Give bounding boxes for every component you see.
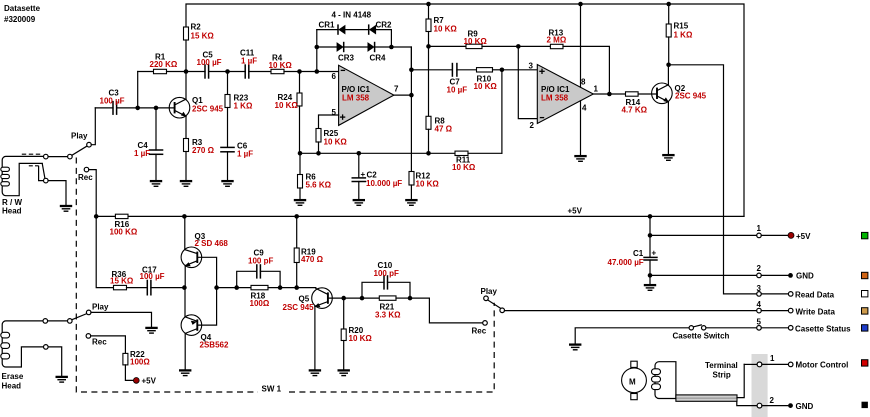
wire drive line (217, 287, 251, 289)
svg-text:+: + (361, 170, 366, 179)
node rail/Q3 (182, 214, 187, 219)
svg-text:R2: R2 (191, 23, 202, 32)
svg-text:Play: Play (71, 132, 88, 141)
resistor R3 (184, 139, 189, 152)
wire IC1b output (593, 93, 625, 95)
capacitor C4 (155, 108, 157, 150)
svg-text:GND: GND (796, 272, 814, 281)
wire cassette to pin5 (706, 327, 757, 329)
switch cassette arm (694, 325, 702, 327)
svg-text:#320009: #320009 (4, 15, 36, 24)
wire pin3 tail (761, 293, 788, 295)
erase head (2, 321, 43, 367)
resistor R23 (227, 72, 229, 95)
switch cassette left contact (689, 326, 693, 330)
svg-text:LM 358: LM 358 (342, 94, 370, 103)
svg-text:2SC 945: 2SC 945 (675, 92, 707, 101)
svg-text:+5V: +5V (796, 232, 811, 241)
ground R20 (338, 370, 350, 375)
resistor R16 (115, 214, 128, 218)
terminal motor GND (788, 403, 793, 408)
capacitor C1 (649, 216, 651, 257)
wire output vertical (410, 47, 412, 172)
wire diode left vertical (316, 30, 318, 72)
terminal Write Data (788, 308, 793, 313)
svg-text:1 µF: 1 µF (237, 150, 253, 159)
node C1 top / pin1 (648, 233, 653, 238)
terminal strip band (752, 354, 768, 417)
svg-text:1: 1 (770, 354, 775, 363)
wire erase contact to pole (48, 320, 68, 322)
wire rail node down to R36 (96, 216, 113, 287)
svg-text:Rec: Rec (472, 327, 487, 336)
resistor R7 (428, 4, 430, 19)
resistor R19 (296, 216, 298, 248)
node diode left lower (315, 45, 320, 50)
wire head rec to ground (48, 181, 66, 206)
svg-text:SW 1: SW 1 (262, 385, 282, 394)
resistor R6 (299, 153, 301, 174)
wire read data run (669, 65, 757, 294)
LED square orange (862, 272, 868, 278)
svg-text:Erase: Erase (2, 372, 24, 381)
wire motor control tail (762, 363, 788, 365)
terminal +5V R22 (133, 378, 139, 384)
svg-text:8: 8 (581, 77, 586, 86)
node R25/rail (316, 151, 321, 156)
node IC1a output (409, 93, 414, 98)
wire C3 node to C4 node (138, 107, 156, 109)
svg-text:5: 5 (332, 108, 337, 117)
wire Q2 emitter (667, 102, 669, 155)
transistor Q5 (312, 288, 333, 309)
node R20 top (341, 296, 346, 301)
terminal Read Data (788, 292, 793, 297)
resistor R24 (299, 72, 301, 94)
svg-text:10 KΩ: 10 KΩ (349, 334, 373, 343)
wire to pin6 (300, 71, 339, 73)
wire pin1 +5V (650, 234, 757, 236)
wire IC1a output (394, 94, 412, 96)
pin 3 contact (757, 292, 762, 297)
switch contact head rec (44, 178, 49, 183)
resistor R13 (518, 45, 550, 47)
capacitor C6 (220, 146, 235, 148)
ground R12 (405, 200, 417, 205)
svg-text:15 KΩ: 15 KΩ (110, 277, 134, 286)
wire contact to pole (48, 156, 68, 158)
node R4/R24 (297, 69, 302, 74)
resistor R1 (138, 71, 154, 73)
switch arm lower right (488, 300, 501, 308)
svg-text:7: 7 (394, 84, 399, 93)
svg-text:Strip: Strip (713, 371, 731, 380)
svg-text:Play: Play (481, 287, 498, 296)
switch contact Play lower (86, 310, 91, 315)
resistor R2 (184, 27, 189, 40)
svg-text:2 MΩ: 2 MΩ (547, 36, 567, 45)
node rail/R36 (94, 214, 99, 219)
capacitor C5 (186, 71, 205, 73)
switch pole lower play (68, 319, 73, 324)
LED square white (862, 291, 868, 297)
wire pin4 tail (761, 310, 788, 312)
ground IC1b pin4 (574, 156, 586, 161)
wire motor gnd tail (762, 405, 788, 407)
op-amp IC1b (537, 65, 593, 124)
svg-text:2: 2 (530, 121, 535, 130)
svg-text:+5V: +5V (568, 207, 583, 216)
diode CR4 (368, 42, 375, 52)
label SW1 (258, 384, 288, 393)
node base line / drive (214, 285, 219, 290)
LED square green (862, 232, 868, 238)
node pin6 / diode (315, 69, 320, 74)
capacitor C3 (95, 107, 113, 109)
svg-text:1: 1 (757, 224, 762, 233)
node C7/R10/pin3 (500, 68, 505, 73)
svg-text:4 - IN 4148: 4 - IN 4148 (332, 11, 372, 20)
ground head rec (60, 206, 72, 211)
wire R1 to C3 node (137, 72, 139, 108)
svg-text:Datasette: Datasette (4, 4, 41, 13)
wire to Rec lower right (410, 298, 483, 323)
svg-text:470 Ω: 470 Ω (301, 255, 324, 264)
svg-text:47.000 µF: 47.000 µF (608, 258, 644, 267)
switch contact Play upper (87, 142, 92, 147)
svg-text:M: M (629, 378, 636, 387)
switch arm upper play (72, 146, 87, 155)
wire rec lower to R22 (91, 336, 126, 354)
ground C6 (221, 181, 233, 186)
terminal Motor Control (788, 362, 793, 367)
wire play contact to C3 (91, 108, 95, 145)
transistor Q1 (169, 97, 190, 118)
switch arm head rec (42, 164, 45, 178)
svg-text:4: 4 (757, 300, 762, 309)
svg-text:100 pF: 100 pF (374, 269, 399, 278)
capacitor C17 (146, 280, 148, 296)
resistor R15 (668, 4, 670, 24)
resistor R20 (343, 298, 345, 329)
node R9/R13/pin2 (516, 44, 521, 49)
node C10 left (360, 296, 365, 301)
svg-text:1 KΩ: 1 KΩ (674, 31, 693, 40)
svg-text:2: 2 (770, 396, 775, 405)
node R8/R11 (426, 151, 431, 156)
svg-text:100Ω: 100Ω (130, 358, 150, 367)
motor terminal bottom (631, 394, 637, 400)
transistor Q2 (652, 83, 673, 104)
svg-text:Read Data: Read Data (795, 291, 835, 300)
node top rail / pin8 (578, 2, 583, 7)
resistor R4 (271, 69, 284, 73)
wire pin2 GND (650, 274, 757, 276)
R/W head (2, 156, 45, 195)
svg-text:R15: R15 (674, 22, 689, 31)
capacitor C10 (362, 282, 384, 298)
svg-text:1: 1 (594, 85, 599, 94)
svg-text:10 KΩ: 10 KΩ (464, 37, 488, 46)
wire lower rail (300, 152, 455, 154)
svg-text:10 KΩ: 10 KΩ (434, 25, 458, 34)
mech link dashes upper (22, 153, 41, 155)
switch contact Rec lower right (483, 321, 488, 326)
svg-text:3: 3 (757, 284, 762, 293)
svg-text:270 Ω: 270 Ω (192, 146, 215, 155)
node C1 bottom / pin2 (648, 273, 653, 278)
ground Q5 (309, 370, 321, 375)
pin 4 contact (757, 308, 762, 313)
motor terminal top (631, 361, 637, 367)
wire ribbon to pin1 (737, 364, 744, 397)
svg-text:100 µF: 100 µF (140, 272, 165, 281)
pin 5 contact (757, 326, 762, 331)
svg-text:10 µF: 10 µF (447, 86, 468, 95)
svg-text:100 KΩ: 100 KΩ (110, 228, 138, 237)
wire pin5 to R25 (319, 115, 339, 129)
node rail/C1 (648, 214, 653, 219)
wire Rec to rail node (89, 170, 96, 217)
resistor R8 (428, 46, 430, 116)
svg-text:4.7 KΩ: 4.7 KΩ (622, 106, 648, 115)
node C4 tap (154, 106, 159, 111)
svg-text:1 KΩ: 1 KΩ (234, 102, 253, 111)
ground R6 (294, 200, 306, 205)
node C7 tap (409, 68, 414, 73)
resistor R25 (316, 129, 321, 143)
svg-text:Play: Play (92, 303, 109, 312)
svg-text:15 KΩ: 15 KΩ (191, 32, 215, 41)
svg-text:10 KΩ: 10 KΩ (416, 180, 440, 189)
svg-text:Write Data: Write Data (796, 308, 836, 317)
LED square red (862, 360, 868, 366)
svg-text:10 KΩ: 10 KΩ (269, 61, 293, 70)
capacitor C9 (237, 271, 257, 287)
node IC1b output (607, 92, 612, 97)
svg-text:6: 6 (332, 72, 337, 81)
ground Q4 (179, 370, 191, 375)
switch pole upper play (68, 154, 73, 159)
switch arm lower play (72, 314, 87, 320)
ground R3 (180, 181, 192, 186)
resistor R22 (123, 353, 128, 365)
node Q3 emitter / Q4 emitter (182, 285, 187, 290)
ground play lower (145, 328, 157, 333)
ground C2 (353, 200, 365, 205)
terminal +5V (788, 232, 794, 238)
wire Q5 base line (328, 297, 362, 299)
node diode right lower (389, 45, 394, 50)
svg-text:1 µF: 1 µF (134, 149, 150, 158)
svg-text:10 KΩ: 10 KΩ (275, 101, 299, 110)
resistor R11 (455, 151, 468, 155)
wire write data (505, 310, 757, 312)
wire erase mid to ground (48, 347, 62, 377)
ground C1 (644, 285, 656, 290)
mech link dashes inner (29, 165, 39, 167)
LED square blue (862, 325, 868, 331)
wire pin2 feed (518, 46, 537, 118)
svg-text:100 µF: 100 µF (100, 97, 125, 106)
ground cassette switch (569, 345, 581, 350)
diode CR1 (317, 29, 338, 31)
LED square black (862, 402, 868, 408)
terminal Casette Status (788, 326, 793, 331)
terminal GND (788, 273, 793, 278)
node top rail / R7 (426, 2, 431, 7)
svg-text:10 KΩ: 10 KΩ (452, 163, 476, 172)
svg-text:Rec: Rec (92, 338, 107, 347)
wire diode right vertical (390, 30, 392, 47)
wire pin1 tail (761, 234, 788, 236)
pin 2 contact (757, 273, 762, 278)
svg-text:CR3: CR3 (338, 54, 355, 63)
svg-text:+5V: +5V (142, 377, 157, 386)
wire ribbon to pin2 (737, 401, 757, 405)
svg-text:10 KΩ: 10 KΩ (324, 138, 348, 147)
svg-text:10.000 µF: 10.000 µF (366, 179, 402, 188)
ground erase (56, 377, 68, 382)
resistor R18 (251, 285, 268, 289)
node R24/R6 (298, 151, 303, 156)
pin 2 motor contact (757, 403, 762, 408)
svg-text:2SC 945: 2SC 945 (192, 105, 224, 114)
pin 1 motor contact (757, 362, 762, 367)
svg-text:Casette Switch: Casette Switch (673, 332, 730, 341)
svg-text:220 KΩ: 220 KΩ (150, 60, 178, 69)
motor coil (655, 362, 676, 399)
node C3/R1 (135, 106, 140, 111)
capacitor C2 (358, 153, 360, 178)
ribbon cable (676, 395, 737, 401)
wire to Q1 base (156, 107, 175, 109)
wire pin4 to ground (580, 101, 582, 156)
svg-text:100 µF: 100 µF (197, 58, 222, 67)
svg-text:3.3 KΩ: 3.3 KΩ (375, 311, 401, 320)
switch contact erase top (43, 319, 48, 324)
wire R10 node down to R11 (501, 70, 503, 154)
wire +5V rail (96, 215, 744, 217)
wire pin2 tail (761, 274, 788, 276)
pin 1 contact (757, 233, 762, 238)
svg-text:C1: C1 (633, 249, 644, 258)
svg-text:Motor Control: Motor Control (796, 361, 849, 370)
node C10 right (408, 296, 413, 301)
wire pin8 to rail (580, 4, 582, 87)
ground C4 (150, 181, 162, 186)
switch contact head top (44, 154, 49, 159)
node R2/R1/C5 (184, 69, 189, 74)
svg-text:GND: GND (796, 402, 814, 411)
ground Q2 (662, 155, 674, 160)
node rail/R19 (294, 214, 299, 219)
LED square tan (862, 308, 868, 314)
svg-text:2SC 945: 2SC 945 (283, 303, 315, 312)
wire diode net to output node (391, 47, 411, 70)
transistor Q4 (184, 288, 186, 317)
svg-text:Rec: Rec (78, 173, 93, 182)
svg-text:100Ω: 100Ω (250, 299, 270, 308)
svg-text:CR2: CR2 (376, 21, 393, 30)
wire head rec contact (39, 166, 44, 180)
svg-text:Head: Head (2, 207, 22, 216)
svg-text:Head: Head (2, 382, 22, 391)
svg-text:+: + (652, 249, 657, 258)
switch contact erase mid (44, 345, 49, 350)
svg-text:2 SD 468: 2 SD 468 (195, 239, 229, 248)
svg-text:4: 4 (582, 103, 587, 112)
svg-text:Casette Status: Casette Status (795, 325, 851, 334)
diode CR3 (317, 46, 337, 48)
svg-text:47 Ω: 47 Ω (435, 125, 453, 134)
motor M (622, 368, 647, 393)
svg-text:5.6 KΩ: 5.6 KΩ (306, 181, 332, 190)
svg-text:5: 5 (757, 317, 762, 326)
wire Q3 base to Q4 base (197, 257, 216, 325)
resistor R12 (409, 172, 414, 186)
wire to pin3 (502, 69, 537, 71)
diode CR2 (368, 24, 370, 34)
resistor R10 (477, 68, 493, 72)
SW1 dashed boundary (76, 158, 494, 393)
switch Play lower right (484, 296, 489, 301)
svg-text:CR4: CR4 (370, 54, 387, 63)
svg-text:CR1: CR1 (319, 21, 336, 30)
capacitor C11 (228, 71, 246, 73)
transistor Q3 (184, 216, 186, 249)
resistor R21 (362, 297, 379, 299)
node Q2 collector / R15 (666, 63, 671, 68)
svg-text:LM 358: LM 358 (541, 94, 569, 103)
switch contact Rec upper (84, 167, 89, 172)
node C9 right (278, 285, 283, 290)
capacitor C7 (411, 69, 452, 71)
wire motor control (744, 363, 757, 365)
svg-text:1 µF: 1 µF (241, 57, 257, 66)
node R19 bottom (294, 285, 299, 290)
svg-text:2: 2 (757, 264, 762, 273)
svg-text:100 pF: 100 pF (248, 257, 273, 266)
svg-text:10 KΩ: 10 KΩ (474, 82, 498, 91)
switch pole lower right (500, 308, 505, 313)
wire play lower to ground (91, 312, 152, 327)
svg-text:3: 3 (529, 62, 534, 71)
resistor R14 (626, 92, 639, 96)
wire pin5 tail (761, 327, 788, 329)
op-amp IC1a (339, 65, 394, 125)
resistor R9 (429, 45, 467, 47)
node C9 left (234, 285, 239, 290)
node R7/R8/R9 (426, 44, 431, 49)
svg-text:2SB562: 2SB562 (200, 341, 229, 350)
resistor R36 (114, 285, 127, 289)
wire top +V rail (186, 4, 744, 216)
svg-text:Terminal: Terminal (705, 361, 738, 370)
node C5/C11/R23 (225, 69, 230, 74)
node C2/rail (357, 151, 362, 156)
wire Q2 collector (667, 65, 669, 85)
switch contact Rec lower (86, 334, 91, 339)
node top rail / R15 (666, 2, 671, 7)
wire cassette status (575, 328, 689, 345)
switch cassette right contact (702, 326, 706, 330)
